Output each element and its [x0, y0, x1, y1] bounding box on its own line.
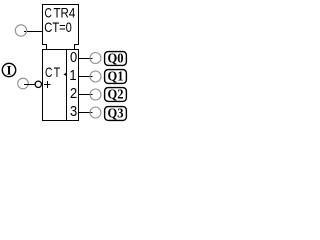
background — [0, 0, 128, 128]
svg-text:0: 0 — [70, 50, 77, 66]
svg-text:Q1: Q1 — [108, 68, 124, 83]
wire clock input — [24, 84, 36, 86]
svg-text:I: I — [6, 63, 11, 78]
internal divider line — [66, 50, 68, 121]
svg-text:3: 3 — [70, 104, 77, 120]
svg-text:Q2: Q2 — [108, 86, 124, 101]
wire output Q0 — [79, 58, 93, 60]
output connector Q1 box — [105, 70, 127, 84]
svg-text:CT=0: CT=0 — [44, 20, 72, 35]
negation bubble clock input — [35, 81, 41, 87]
pin bubble Q1 — [90, 71, 101, 82]
svg-text:C: C — [45, 6, 52, 21]
svg-text:T: T — [54, 65, 61, 80]
wire output Q1 — [79, 76, 93, 78]
output connector Q3 box — [105, 107, 127, 121]
wire reset input — [24, 31, 43, 33]
counter U1 common control block outline (CTR4) — [43, 5, 79, 50]
svg-text:C: C — [45, 65, 52, 80]
pin bubble Q2 — [90, 89, 101, 100]
svg-text:2: 2 — [70, 86, 77, 102]
wire output Q3 — [79, 112, 93, 114]
svg-text:Q3: Q3 — [108, 105, 124, 120]
label + (count-up input) — [44, 81, 51, 88]
svg-text:1: 1 — [69, 68, 76, 84]
svg-text:TR4: TR4 — [54, 6, 76, 21]
output connector Q0 box — [105, 52, 127, 66]
pin bubble Q3 — [90, 107, 101, 118]
counter U1 array block body — [43, 50, 79, 121]
output connector Q2 box — [105, 88, 127, 102]
internal connection arrow on divider — [63, 73, 66, 77]
pin bubble of input connector — [18, 78, 29, 89]
pin bubble Q0 — [90, 53, 101, 64]
input connector I1 — [2, 63, 15, 76]
pin bubble reset input — [15, 25, 26, 36]
svg-text:Q0: Q0 — [108, 50, 124, 65]
wire output Q2 — [79, 94, 93, 96]
